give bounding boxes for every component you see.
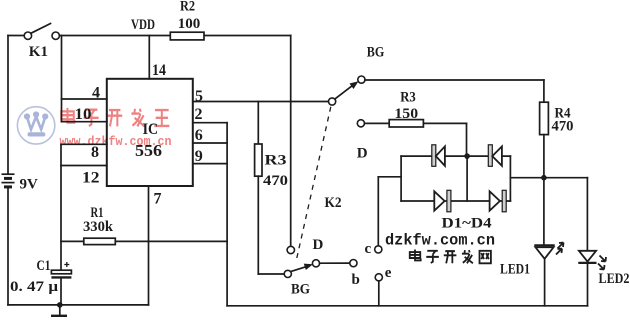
wire R3 down to bridge — [466, 123, 468, 156]
wire pins 2,6,9 bus down to bottom rail — [226, 123, 228, 306]
svg-text:100: 100 — [178, 16, 201, 32]
svg-text:C1: C1 — [37, 258, 51, 274]
IC U1 556 — [107, 79, 193, 186]
wire pins 8/12 bus down to C1 — [60, 144, 62, 270]
LED1 — [500, 178, 564, 306]
junction node at R4/LED1 — [541, 175, 547, 181]
watermark red text line1 — [61, 108, 169, 126]
switch contact from R2 node — [287, 246, 294, 253]
wire right bottom rail — [227, 305, 587, 307]
wire pin 5 to BG switch — [193, 101, 329, 103]
resistor R1 330k — [61, 205, 227, 245]
wire pin 14 from top rail — [148, 36, 150, 79]
wire pin 10 — [62, 121, 107, 123]
transistor-switch BG lower — [284, 260, 319, 298]
ground — [51, 302, 67, 316]
wire top rail — [59, 35, 290, 37]
svg-text:7: 7 — [154, 191, 162, 208]
svg-text:9V: 9V — [20, 177, 39, 193]
switch K1 — [8, 24, 59, 61]
wire pin 4 — [62, 98, 107, 100]
diode D4 — [490, 190, 507, 212]
resistor R2 100 — [170, 0, 204, 40]
svg-text:D: D — [357, 146, 368, 162]
svg-text:R2: R2 — [180, 0, 195, 15]
svg-text:14: 14 — [152, 62, 166, 79]
svg-text:9: 9 — [195, 148, 203, 165]
svg-text:LED1: LED1 — [500, 262, 530, 278]
svg-text:330k: 330k — [83, 219, 114, 235]
svg-text:LED2: LED2 — [599, 271, 630, 287]
switch K2 dashed link — [296, 107, 331, 263]
svg-text:4: 4 — [92, 84, 100, 101]
diode D1 — [432, 145, 445, 167]
svg-text:R3: R3 — [265, 153, 287, 169]
wire bridge left to contact c — [365, 177, 402, 257]
svg-text:D1~D4: D1~D4 — [442, 216, 493, 232]
svg-text:b: b — [352, 272, 360, 288]
resistor R3 150 — [357, 89, 466, 127]
svg-text:6: 6 — [195, 127, 203, 144]
svg-text:dzkfw.com.cn: dzkfw.com.cn — [385, 232, 495, 250]
wire pin 7 down to left ground rail — [148, 186, 150, 305]
svg-text:IC: IC — [143, 121, 159, 138]
capacitor C1 0.47u — [10, 258, 71, 305]
svg-text:VDD: VDD — [131, 17, 155, 33]
svg-text:BG: BG — [291, 282, 310, 298]
wire BG to R4 — [365, 79, 544, 81]
svg-text:BG: BG — [367, 45, 385, 61]
wire left bottom rail — [8, 304, 149, 306]
svg-text:2: 2 — [195, 106, 203, 123]
wire pin 12 — [61, 165, 107, 167]
svg-text:R3: R3 — [400, 89, 416, 105]
svg-text:D: D — [313, 237, 324, 253]
svg-text:10: 10 — [75, 106, 92, 123]
svg-text:e: e — [385, 265, 392, 281]
diode D2 — [488, 145, 502, 167]
transistor-switch BG upper — [329, 45, 385, 106]
diode D3 — [434, 190, 451, 212]
resistor R3 470 (left) — [255, 102, 288, 275]
wire pin 8 — [61, 143, 107, 145]
wire to contact b — [320, 262, 350, 264]
svg-text:470: 470 — [263, 173, 288, 189]
resistor R4 470 — [540, 80, 574, 178]
svg-text:556: 556 — [135, 141, 162, 160]
node b — [350, 260, 357, 267]
wire bridge output — [510, 177, 587, 179]
watermark logo circle — [17, 107, 54, 144]
node e — [375, 265, 392, 306]
svg-text:8: 8 — [91, 144, 99, 161]
wire R2 right down to pin5 line and K2 — [290, 36, 292, 247]
wire VDD bus down to pins 4,10 — [61, 36, 63, 122]
diode bridge D1~D4 — [401, 153, 510, 201]
wire pin 9 — [193, 163, 227, 165]
wire pin 6 — [193, 142, 227, 144]
svg-text:K1: K1 — [29, 44, 48, 60]
svg-text:470: 470 — [552, 119, 574, 135]
svg-text:0. 47 μ: 0. 47 μ — [10, 279, 59, 295]
wire pin 2 — [193, 122, 227, 124]
svg-text:150: 150 — [394, 106, 418, 122]
watermark black cjk — [410, 250, 491, 264]
svg-text:5: 5 — [195, 88, 203, 105]
svg-text:12: 12 — [82, 170, 100, 187]
svg-text:K2: K2 — [325, 195, 342, 211]
LED2 — [578, 178, 629, 306]
battery B 9V — [2, 36, 39, 305]
svg-text:c: c — [365, 241, 372, 257]
